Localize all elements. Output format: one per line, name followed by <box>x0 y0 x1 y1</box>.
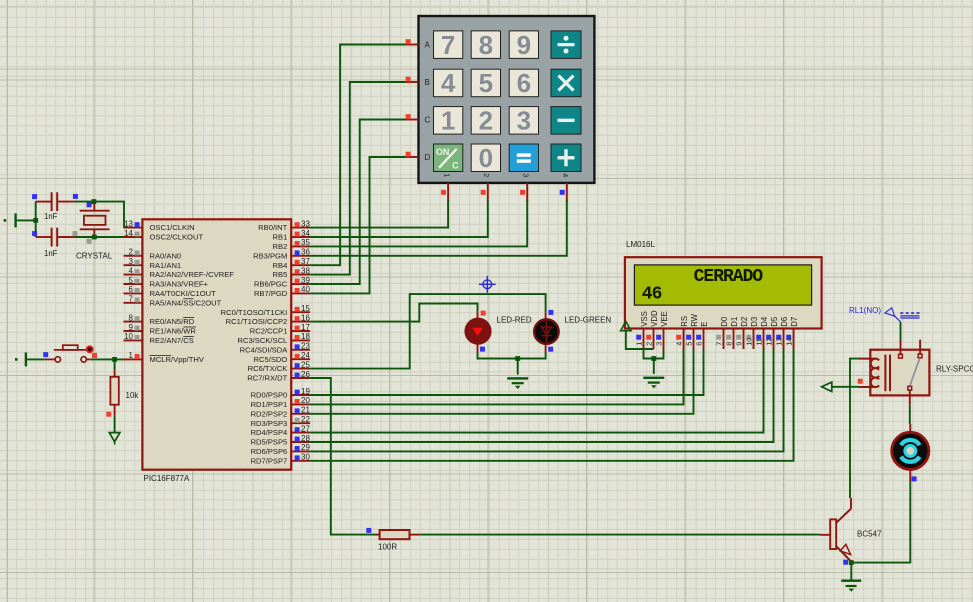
pin 20 (RD1/PSP1) stub <box>251 396 311 409</box>
LCD pin 8 (D1) stub <box>725 317 740 349</box>
svg-text:LM016L: LM016L <box>626 240 655 249</box>
svg-text:8: 8 <box>479 30 493 60</box>
svg-text:RA3/AN3/VREF+: RA3/AN3/VREF+ <box>150 280 209 289</box>
wire keypad row D to RB7 (pin 40) <box>310 157 405 293</box>
svg-text:2: 2 <box>645 342 654 346</box>
svg-text:4: 4 <box>675 342 684 346</box>
terminal arrow at relay coil <box>822 382 832 391</box>
LCD pin 10 (D3) stub <box>745 317 760 349</box>
ground terminal at button <box>15 352 27 366</box>
svg-text:RC0/T1OSO/T1CKI: RC0/T1OSO/T1CKI <box>221 308 288 317</box>
wire LCD RW to RD2 (pin 21) <box>310 349 693 414</box>
power terminal at LCD VDD <box>621 321 631 330</box>
svg-text:35: 35 <box>301 238 310 247</box>
svg-text:26: 26 <box>301 370 310 379</box>
crystal X1 <box>80 202 110 244</box>
svg-text:VEE: VEE <box>660 311 669 327</box>
svg-text:29: 29 <box>301 443 310 452</box>
LED D2 LED-GREEN <box>534 310 559 353</box>
svg-text:RE1/AN6/WR: RE1/AN6/WR <box>150 327 197 336</box>
svg-text:RB2: RB2 <box>273 242 288 251</box>
svg-text:100R: 100R <box>378 543 397 552</box>
wire keypad col 3 to RB2 (pin 35) <box>310 200 527 246</box>
svg-text:3: 3 <box>522 173 531 177</box>
svg-text:38: 38 <box>301 266 310 275</box>
keypad column label 2 <box>482 173 491 177</box>
LCD pin 13 (D6) stub <box>775 317 790 349</box>
pin 27 (RD4/PSP4) stub <box>251 424 311 437</box>
svg-text:B: B <box>425 78 430 87</box>
relay RL1 contacts and switch <box>899 340 922 406</box>
LCD label LM016L <box>626 240 655 249</box>
ground terminal at crystal <box>4 213 17 227</box>
wire ground to button <box>27 358 45 360</box>
LCD pin 9 (D2) stub <box>735 317 750 349</box>
svg-text:10k: 10k <box>126 391 140 400</box>
node crystal top junction <box>92 199 97 204</box>
keypad row pin A stub <box>406 39 419 44</box>
wire ground to capacitor junction <box>17 202 36 237</box>
svg-text:30: 30 <box>301 453 310 462</box>
keypad key 0 <box>471 143 500 173</box>
pin 17 (RC2/CCP1) stub <box>250 323 311 336</box>
keypad key 2 <box>471 106 500 136</box>
wire RC1 (pin 16) to LED-RED anode <box>310 304 477 322</box>
wire capacitors to OSC pins <box>75 202 124 237</box>
svg-text:RD7/PSP7: RD7/PSP7 <box>251 456 288 465</box>
svg-text:RD2/PSP2: RD2/PSP2 <box>251 409 288 418</box>
svg-text:4: 4 <box>441 68 456 98</box>
svg-text:14: 14 <box>124 229 133 238</box>
keypad row label A <box>425 40 431 49</box>
wire relay pole to motor <box>909 406 911 424</box>
pin 16 (RC1/T1OSI/CCP2) stub <box>226 313 311 326</box>
svg-text:3: 3 <box>129 257 134 266</box>
pin 15 (RC0/T1OSO/T1CKI) stub <box>221 304 311 317</box>
svg-text:D6: D6 <box>780 317 789 327</box>
svg-text:2: 2 <box>479 106 493 136</box>
svg-text:RA2/AN2/VREF-/CVREF: RA2/AN2/VREF-/CVREF <box>150 270 235 279</box>
svg-text:OSC2/CLKOUT: OSC2/CLKOUT <box>150 233 204 242</box>
node emitter junction <box>843 560 854 565</box>
keypad key ON/C <box>434 144 463 172</box>
pin 23 (RC4/SDI/SDA) stub <box>240 342 311 355</box>
svg-text:40: 40 <box>301 285 310 294</box>
svg-text:RC1/T1OSI/CCP2: RC1/T1OSI/CCP2 <box>226 317 288 326</box>
svg-text:9: 9 <box>735 342 744 346</box>
wire RC6 (pin 25) to LED-GREEN anode <box>310 294 545 369</box>
pin 26 (RC7/RX/DT) stub <box>247 370 310 383</box>
LCD pin 12 (D5) stub <box>765 316 780 349</box>
svg-text:19: 19 <box>301 387 310 396</box>
svg-text:1nF: 1nF <box>44 212 58 221</box>
svg-text:0: 0 <box>479 143 493 173</box>
node LED ground junction <box>515 356 520 361</box>
svg-text:9: 9 <box>129 323 134 332</box>
svg-text:VDD: VDD <box>650 310 659 327</box>
svg-text:46: 46 <box>642 284 662 304</box>
svg-text:36: 36 <box>301 248 310 257</box>
svg-text:11: 11 <box>755 338 764 345</box>
svg-text:23: 23 <box>301 342 310 351</box>
pin 21 (RD2/PSP2) stub <box>251 406 311 419</box>
svg-text:ON: ON <box>436 147 450 157</box>
transistor Q1 label BC547 <box>857 530 882 539</box>
wire LCD D6 to RD6 (pin 29) <box>310 349 783 451</box>
keypad column label 3 <box>522 173 531 177</box>
push button SW1 <box>43 345 92 362</box>
relay RL1 RLY-SPCO body <box>870 350 929 396</box>
LCD pin 2 (VDD) stub <box>645 310 660 349</box>
pin 3 (RA1/AN1) stub <box>124 257 182 270</box>
node MCLR junction <box>112 357 117 362</box>
wire keypad col 4 to RB3 (pin 36) <box>310 200 567 256</box>
LCD LM016L body <box>625 257 822 328</box>
pin 18 (RC3/SCK/SCL) stub <box>237 332 310 345</box>
svg-text:5: 5 <box>685 342 694 346</box>
pin 37 (RB4) stub <box>273 257 311 270</box>
svg-text:D4: D4 <box>760 316 769 327</box>
svg-text:CERRADO: CERRADO <box>694 267 764 287</box>
svg-text:RB7/PGD: RB7/PGD <box>254 289 288 298</box>
wire keypad row B to RB5 (pin 38) <box>310 82 405 275</box>
LCD pin 3 (VEE) stub <box>655 311 670 349</box>
pin 33 (RB0/INT) stub <box>258 219 310 232</box>
svg-text:RL1(NO): RL1(NO) <box>849 306 881 315</box>
LCD text line 2 46 <box>642 284 662 304</box>
wire relay coil to BC547 collector <box>850 359 860 498</box>
keypad key div <box>551 31 581 59</box>
relay RL1 coil <box>858 355 891 392</box>
wire LCD D4 to RD4 (pin 27) <box>310 349 763 433</box>
pin 9 (RE1/AN6/tsp) stub <box>124 323 197 336</box>
svg-text:RA5/AN4/SS/C2OUT: RA5/AN4/SS/C2OUT <box>150 298 222 307</box>
keypad key = <box>509 144 538 172</box>
capacitor C2 value 1nF <box>44 249 58 258</box>
svg-text:2: 2 <box>482 173 491 177</box>
svg-text:27: 27 <box>301 424 310 433</box>
svg-text:17: 17 <box>301 323 310 332</box>
svg-text:3: 3 <box>517 106 531 136</box>
pin 35 (RB2) stub <box>273 238 311 251</box>
node LCD ground junction <box>651 356 656 361</box>
pin 2 (RA0/AN0) stub <box>124 248 182 261</box>
svg-text:RD3/PSP3: RD3/PSP3 <box>251 419 288 428</box>
svg-text:BC547: BC547 <box>857 530 882 539</box>
svg-text:D2: D2 <box>740 317 749 327</box>
svg-text:1: 1 <box>441 106 455 136</box>
keypad key 3 <box>509 106 538 136</box>
svg-text:12: 12 <box>765 338 774 346</box>
keypad column label 1 <box>443 173 452 177</box>
transistor Q1 BC547 <box>820 498 851 562</box>
svg-text:RLY-SPCO: RLY-SPCO <box>936 364 973 373</box>
pin 25 (RC6/TX/CK) stub <box>248 360 311 373</box>
svg-text:16: 16 <box>301 313 310 322</box>
pin 36 (RB3/PGM) stub <box>253 248 310 261</box>
svg-text:VSS: VSS <box>640 311 649 327</box>
resistor R1 10k <box>92 353 119 417</box>
keypad key mul <box>551 69 581 97</box>
wire LCD RS to RD1 (pin 20) <box>310 349 683 404</box>
svg-text:RB3/PGM: RB3/PGM <box>253 251 287 260</box>
keypad column label 4 <box>561 173 570 177</box>
svg-text:5: 5 <box>479 68 493 98</box>
svg-text:13: 13 <box>124 219 133 228</box>
svg-text:RS: RS <box>680 316 689 327</box>
capacitor C1 value 1nF <box>44 212 58 221</box>
svg-text:RC3/SCK/SCL: RC3/SCK/SCL <box>237 336 287 345</box>
wire RC7 (pin 26) to resistor R2 <box>310 378 375 535</box>
svg-text:2: 2 <box>129 248 134 257</box>
LCD pin 6 (E) stub <box>695 322 710 349</box>
svg-text:RC4/SDI/SDA: RC4/SDI/SDA <box>240 345 289 354</box>
pin 38 (RB5) stub <box>273 266 311 279</box>
svg-text:C: C <box>425 115 431 124</box>
LCD pin 5 (RW) stub <box>685 313 700 349</box>
wire keypad row C to RB6 (pin 39) <box>310 120 405 285</box>
svg-text:D1: D1 <box>730 317 739 327</box>
pin 8 (RE0/AN5/tsp) stub <box>124 313 195 326</box>
keypad key plus <box>551 144 581 172</box>
capacitor C1 1nF <box>32 192 78 211</box>
svg-text:LED-GREEN: LED-GREEN <box>565 315 612 324</box>
svg-text:RD5/PSP5: RD5/PSP5 <box>251 438 288 447</box>
svg-text:1: 1 <box>129 351 134 360</box>
keypad row label B <box>425 78 430 87</box>
svg-text:14: 14 <box>785 338 794 346</box>
svg-text:RB0/INT: RB0/INT <box>258 223 287 232</box>
keypad row label D <box>425 153 431 162</box>
svg-text:CRYSTAL: CRYSTAL <box>76 251 113 260</box>
pin 6 (RA4/T0CKI/C1) stub <box>124 285 217 298</box>
ground symbol below BC547 <box>841 580 861 592</box>
svg-text:39: 39 <box>301 276 310 285</box>
wire BC547 emitter to ground <box>850 563 852 580</box>
keypad column pin 4 stub <box>560 183 567 201</box>
svg-text:10: 10 <box>745 338 754 346</box>
pin 7 (RA5/AN4/tsp) stub <box>124 295 222 308</box>
PIC16F877A U1 body <box>142 219 291 469</box>
LED D1 LED-RED <box>465 311 491 353</box>
keypad key 1 <box>434 106 463 136</box>
ground symbol below LCD <box>643 377 664 389</box>
svg-text:34: 34 <box>301 229 310 238</box>
keypad row pin B stub <box>406 77 419 82</box>
svg-text:MCLR/Vpp/THV: MCLR/Vpp/THV <box>150 355 205 364</box>
wire terminal arrow to relay coil <box>832 386 859 388</box>
node capacitor-ground junction <box>33 218 38 223</box>
pin 34 (RB1) stub <box>273 229 311 242</box>
keypad row pin C stub <box>406 114 419 119</box>
relay label RLY-SPCO <box>936 364 973 373</box>
keypad row pin D stub <box>406 152 419 157</box>
svg-text:37: 37 <box>301 257 310 266</box>
svg-text:C: C <box>452 161 459 171</box>
LCD pin 7 (D0) stub <box>715 316 730 349</box>
svg-text:RC2/CCP1: RC2/CCP1 <box>250 327 288 336</box>
pin 4 (RA2/AN2/VREF) stub <box>124 266 235 279</box>
wire probe to relay common <box>900 322 902 340</box>
svg-text:6: 6 <box>517 68 531 98</box>
pin 39 (RB6/PGC) stub <box>254 276 310 289</box>
svg-text:RA4/T0CKI/C1OUT: RA4/T0CKI/C1OUT <box>150 289 217 298</box>
svg-text:20: 20 <box>301 396 310 405</box>
wire resistor R1 to ground arrow <box>114 416 116 433</box>
pin 5 (RA3/AN3/VREF) stub <box>124 276 209 289</box>
svg-text:4: 4 <box>561 173 570 177</box>
wire LCD VSS,VEE to ground <box>644 349 664 374</box>
svg-text:RC7/RX/DT: RC7/RX/DT <box>247 374 287 383</box>
wire LED cathodes to ground rail <box>478 353 546 375</box>
keypad key 8 <box>471 30 500 60</box>
pin 22 (RD3/PSP3) stub <box>251 415 311 428</box>
svg-text:RA0/AN0: RA0/AN0 <box>150 251 182 260</box>
LCD text line 1 CERRADO <box>694 267 764 287</box>
pin 24 (RC5/SDO) stub <box>254 351 311 364</box>
wire button to MCLR (pin 1) <box>91 358 124 360</box>
svg-text:RD1/PSP1: RD1/PSP1 <box>251 400 288 409</box>
svg-text:D: D <box>425 153 431 162</box>
svg-text:RD4/PSP4: RD4/PSP4 <box>251 428 288 437</box>
svg-text:RE2/AN7/CS: RE2/AN7/CS <box>150 336 194 345</box>
LCD pin 11 (D4) stub <box>755 316 770 349</box>
svg-text:OSC1/CLKIN: OSC1/CLKIN <box>150 223 195 232</box>
ground symbol below LEDs <box>507 377 528 389</box>
wire LCD E to RD0 (pin 19) <box>310 349 703 395</box>
wire keypad row A to RB4 (pin 37) <box>310 45 405 266</box>
pin 19 (RD0/PSP0) stub <box>251 387 311 400</box>
keypad row label C <box>425 115 431 124</box>
svg-text:28: 28 <box>301 434 310 443</box>
svg-text:18: 18 <box>301 332 310 341</box>
svg-text:6: 6 <box>695 342 704 346</box>
node crystal bottom junction <box>92 235 97 240</box>
svg-text:8: 8 <box>129 313 134 322</box>
svg-text:15: 15 <box>301 304 310 313</box>
keypad KP1 panel <box>419 16 595 183</box>
svg-text:E: E <box>700 322 709 327</box>
svg-text:RA1/AN1: RA1/AN1 <box>150 261 182 270</box>
pin 10 (RE2/AN7/tsp) stub <box>124 332 194 345</box>
keypad key 7 <box>434 30 463 60</box>
wire keypad col 2 to RB1 (pin 34) <box>310 200 488 237</box>
svg-text:RC6/TX/CK: RC6/TX/CK <box>248 364 288 373</box>
svg-text:9: 9 <box>517 30 531 60</box>
ground arrow terminal below R1 <box>109 433 120 445</box>
LED D2 label LED-GREEN <box>565 315 612 324</box>
capacitor C2 1nF <box>32 228 77 247</box>
svg-text:4: 4 <box>129 266 134 275</box>
svg-text:8: 8 <box>725 342 734 346</box>
wire LCD D7 to RD7 (pin 30) <box>310 349 793 461</box>
LCD pin 1 (VSS) stub <box>635 311 650 349</box>
svg-text:1nF: 1nF <box>44 249 58 258</box>
keypad key 6 <box>509 68 538 98</box>
pin 13 (OSC1/CLKIN) stub <box>124 219 195 232</box>
svg-text:D5: D5 <box>770 316 779 327</box>
svg-text:RC5/SDO: RC5/SDO <box>254 355 288 364</box>
keypad column pin 3 stub <box>520 183 527 201</box>
svg-text:3: 3 <box>655 342 664 346</box>
svg-text:33: 33 <box>301 219 310 228</box>
resistor R2 100R <box>366 528 420 539</box>
wire keypad col 1 to RB0 (pin 33) <box>310 200 448 228</box>
wire junction to resistor R1 <box>114 359 116 370</box>
keypad key minus <box>551 107 581 135</box>
pin 28 (RD5/PSP5) stub <box>251 434 311 447</box>
wire power terminal to LCD VDD (pin 2) <box>626 331 654 349</box>
svg-text:RE0/AN5/RD: RE0/AN5/RD <box>150 317 195 326</box>
pin 40 (RB7/PGD) stub <box>254 285 310 298</box>
svg-text:RB6/PGC: RB6/PGC <box>254 280 288 289</box>
svg-text:7: 7 <box>441 30 455 60</box>
svg-text:7: 7 <box>129 295 134 304</box>
origin marker crosshair <box>479 276 496 293</box>
svg-text:D0: D0 <box>720 316 729 327</box>
resistor R1 value 10k <box>126 391 140 400</box>
svg-text:6: 6 <box>129 285 134 294</box>
svg-text:LED-RED: LED-RED <box>497 315 532 324</box>
svg-text:24: 24 <box>301 351 310 360</box>
svg-text:RD6/PSP6: RD6/PSP6 <box>251 447 288 456</box>
resistor R2 value 100R <box>378 543 397 552</box>
motor M1 <box>892 424 929 481</box>
pin 14 (OSC2/CLKOUT) stub <box>124 229 204 242</box>
svg-text:D3: D3 <box>750 317 759 327</box>
svg-text:10: 10 <box>124 332 133 341</box>
voltage probe RL1(NO) <box>849 306 920 322</box>
svg-text:1: 1 <box>443 173 452 177</box>
svg-text:RB5: RB5 <box>273 270 288 279</box>
pin 1 (tspan text-) stub <box>124 351 205 364</box>
LCD screen <box>634 265 811 305</box>
pin 29 (RD6/PSP6) stub <box>251 443 311 456</box>
keypad key 9 <box>509 30 538 60</box>
LCD pin 14 (D7) stub <box>785 317 800 349</box>
keypad column pin 2 stub <box>481 183 488 201</box>
svg-text:1: 1 <box>635 342 644 346</box>
svg-text:D7: D7 <box>790 317 799 327</box>
keypad column pin 1 stub <box>441 183 448 201</box>
svg-text:22: 22 <box>301 415 310 424</box>
svg-text:25: 25 <box>301 360 310 369</box>
wire resistor R2 to BC547 base <box>420 534 820 536</box>
svg-text:5: 5 <box>129 276 134 285</box>
svg-text:21: 21 <box>301 406 310 415</box>
svg-text:RW: RW <box>690 313 699 326</box>
PIC16F877A label <box>144 474 190 483</box>
pin 30 (RD7/PSP7) stub <box>251 453 311 466</box>
LED D1 label LED-RED <box>497 315 532 324</box>
svg-text:13: 13 <box>775 338 784 346</box>
svg-text:PIC16F877A: PIC16F877A <box>144 474 190 483</box>
svg-text:7: 7 <box>715 342 724 346</box>
keypad key 5 <box>471 68 500 98</box>
svg-text:RB1: RB1 <box>273 233 288 242</box>
LCD pin 4 (RS) stub <box>675 316 690 349</box>
wire emitter junction to motor <box>851 481 910 562</box>
svg-text:RB4: RB4 <box>273 261 288 270</box>
wire LCD D5 to RD5 (pin 28) <box>310 349 773 442</box>
crystal label CRYSTAL <box>76 251 113 260</box>
svg-text:RD0/PSP0: RD0/PSP0 <box>251 391 288 400</box>
svg-text:A: A <box>425 40 431 49</box>
keypad key 4 <box>434 68 463 98</box>
